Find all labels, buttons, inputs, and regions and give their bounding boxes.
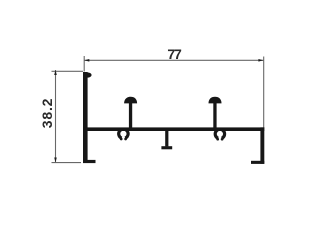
- svg-text:77: 77: [167, 46, 182, 62]
- svg-text:38.2: 38.2: [39, 98, 55, 128]
